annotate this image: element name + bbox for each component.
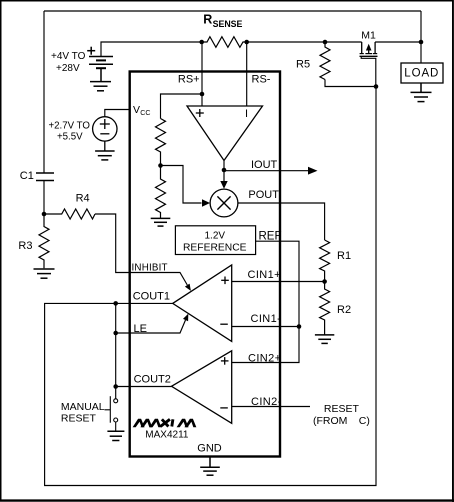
svg-text:(FROM: (FROM (313, 415, 347, 427)
wire INHIBIT lead (130, 273, 188, 286)
M1 body arrow (366, 44, 372, 51)
resistor R5 (320, 42, 330, 80)
resistor RSENSE (202, 37, 247, 48)
node C1 R3 R4 junction (42, 212, 47, 217)
svg-text:I: I (245, 108, 248, 120)
capacitor C1 (36, 173, 54, 181)
ground below LOAD (411, 83, 432, 102)
svg-text:R2: R2 (337, 304, 351, 316)
wire M1 drain to LOAD node (375, 41, 421, 43)
svg-text:LOAD: LOAD (404, 68, 439, 80)
svg-text:IOUT: IOUT (251, 159, 278, 171)
wire COUT1 LE COUT2 bus (115, 303, 117, 398)
svg-text:CIN1-: CIN1- (251, 313, 282, 325)
node LE junction (113, 331, 118, 336)
divider resistor upper (156, 119, 166, 166)
svg-text:RESET: RESET (324, 403, 360, 415)
svg-text:RS+: RS+ (178, 74, 200, 86)
svg-text:GND: GND (197, 443, 222, 455)
multiplier U1b (210, 189, 238, 217)
ground below R3 (34, 269, 55, 278)
svg-text:RESET: RESET (61, 413, 97, 425)
ground below R2 (315, 335, 334, 344)
svg-text:C1: C1 (20, 170, 34, 182)
1.2V reference box (175, 226, 255, 255)
arrow IOUT (308, 167, 318, 175)
wire right loop from top to LOAD node (420, 11, 422, 63)
arrow amp output to multiplier (223, 170, 225, 182)
node R1 R2 junction (322, 279, 327, 284)
op-amp current sense amplifier (187, 106, 263, 161)
resistor R4 (44, 209, 95, 219)
svg-text:R: R (203, 12, 212, 26)
wire left loop upper (43, 11, 45, 173)
wire top loop (44, 10, 421, 12)
svg-text:COUT2: COUT2 (134, 373, 171, 385)
svg-text:MAX4211: MAX4211 (145, 429, 189, 440)
svg-text:CIN2+: CIN2+ (248, 353, 282, 365)
comparator U1c (173, 265, 232, 342)
node R5 top junction (323, 40, 328, 45)
wire CIN1- to REF net (232, 326, 299, 328)
svg-text:C): C) (359, 415, 370, 427)
svg-text:SENSE: SENSE (213, 19, 243, 29)
resistor R3 (39, 214, 49, 268)
resistor R2 (320, 282, 330, 335)
wire R5 bottom to gate node (325, 80, 376, 87)
svg-text:REFERENCE: REFERENCE (183, 242, 247, 253)
arrow divider tap into multiplier (202, 199, 210, 206)
wire CIN1+ to R1 R2 junction (232, 281, 325, 283)
wire RS+ pin down to divider tap (201, 42, 203, 106)
node COUT1 junction (113, 301, 118, 306)
svg-text:+28V: +28V (56, 63, 80, 74)
svg-text:R5: R5 (296, 58, 310, 70)
ground below battery (90, 82, 111, 91)
node CIN1- REF junction (297, 324, 302, 329)
transistor M1 (360, 42, 378, 87)
wire RS- node to M1 (247, 41, 362, 43)
wire R4 to INHIBIT pin (95, 214, 130, 273)
node M1 gate junction (374, 84, 379, 89)
svg-text:+2.7V TO: +2.7V TO (49, 120, 91, 131)
divider resistor lower (156, 166, 166, 219)
resistor R1 (320, 240, 330, 282)
svg-text:RS-: RS- (252, 74, 271, 86)
wire LE lead (116, 320, 186, 333)
wire C1 bottom to node A (43, 181, 45, 215)
svg-text:INHIBIT: INHIBIT (132, 262, 168, 273)
svg-text:+4V TO: +4V TO (51, 51, 86, 62)
wire CIN2- to RESET (232, 406, 310, 408)
node amp output junction (222, 168, 227, 173)
svg-text:POUT: POUT (248, 189, 279, 201)
wire COUT1 to M1 gate loop (45, 87, 376, 486)
wire POUT to R1 top (238, 203, 325, 240)
svg-text:+5.5V: +5.5V (57, 131, 83, 142)
wire divider tap to multiplier input (161, 166, 202, 204)
node divider tap junction (158, 163, 163, 168)
wire source to VCC pin (105, 110, 130, 117)
arrowhead LE (183, 314, 188, 322)
node LOAD top junction (419, 40, 424, 45)
node RS+ junction (199, 40, 204, 45)
svg-text:MANUAL: MANUAL (61, 401, 105, 413)
node RS- junction (244, 40, 249, 45)
wire IOUT (224, 170, 309, 172)
svg-text:V: V (133, 104, 140, 116)
ground below switch (107, 431, 124, 440)
voltage source +2.7V TO +5.5V (93, 117, 117, 151)
wire amp output to IOUT node (223, 161, 225, 171)
MAXIM logo (133, 419, 162, 428)
svg-text:1.2V: 1.2V (205, 230, 226, 241)
svg-text:CIN1+: CIN1+ (248, 269, 282, 281)
wire COUT2 lead (116, 386, 172, 388)
svg-text:LE: LE (134, 323, 147, 335)
node divider top junction (200, 92, 205, 97)
svg-text:R1: R1 (337, 250, 351, 262)
wire REF to CIN2+ (232, 241, 299, 362)
ground below IC (200, 457, 220, 476)
IC U1 MAX4211 outline (130, 72, 280, 457)
wire RS+ node to divider top (161, 94, 203, 119)
arrowhead INHIBIT (185, 284, 191, 291)
svg-text:CC: CC (140, 110, 150, 117)
svg-text:CIN2-: CIN2- (251, 396, 282, 408)
ground below divider (151, 218, 171, 226)
svg-text:M1: M1 (361, 30, 376, 42)
svg-text:R3: R3 (18, 240, 32, 252)
svg-text:COUT1: COUT1 (133, 291, 170, 303)
ground below source (95, 151, 115, 160)
svg-text:R4: R4 (76, 192, 90, 204)
wire battery to RS+ node (101, 42, 202, 57)
switch manual reset (105, 396, 118, 431)
wire RS- pin down to amp (246, 42, 248, 106)
comparator U1d (172, 351, 232, 424)
node COUT2 junction (113, 384, 118, 389)
LOAD box (401, 63, 443, 83)
battery +4V TO +28V (87, 47, 113, 81)
svg-text:REF: REF (259, 231, 282, 243)
